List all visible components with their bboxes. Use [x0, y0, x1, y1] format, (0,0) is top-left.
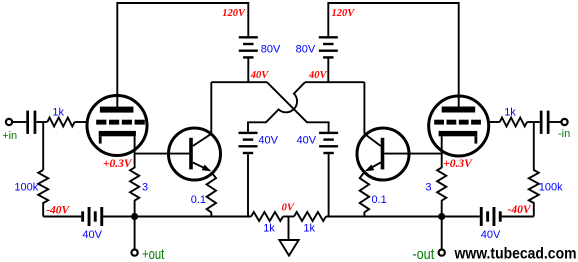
- svg-text:-in: -in: [558, 128, 570, 140]
- wire rail to Q2 collector: [363, 82, 365, 134]
- battery B5 40V bias left: [81, 207, 103, 226]
- svg-text:-40V: -40V: [508, 204, 532, 216]
- svg-text:1k: 1k: [303, 222, 315, 234]
- wire B3 to rail: [247, 154, 249, 216]
- svg-text:1k: 1k: [504, 106, 516, 118]
- wire B5 to node A: [103, 216, 134, 218]
- node A left output: [131, 213, 138, 220]
- svg-text:40V: 40V: [481, 229, 501, 241]
- terminal -in: [561, 119, 567, 125]
- wire rail to Q1 collector: [210, 82, 212, 134]
- wire R7 to node B: [326, 216, 442, 218]
- triode V1: [87, 96, 147, 156]
- wire V2 grid to R8: [489, 121, 500, 123]
- wire C2 to -in: [550, 121, 562, 123]
- wire C1 to R1 with grid-tap node: [36, 121, 47, 123]
- svg-text:100k: 100k: [14, 182, 38, 194]
- wire node A to +out: [134, 217, 136, 250]
- svg-text:-out: -out: [412, 246, 435, 262]
- resistor R3 3 (left): [130, 154, 139, 217]
- svg-text:3: 3: [142, 182, 148, 194]
- terminal +out: [132, 250, 138, 256]
- svg-text:40V: 40V: [82, 229, 102, 241]
- svg-text:+out: +out: [142, 246, 165, 262]
- resistor R7 1k: [294, 212, 326, 221]
- svg-text:40V: 40V: [308, 70, 328, 81]
- svg-text:100k: 100k: [539, 182, 563, 194]
- wire +in to C1: [12, 121, 26, 123]
- resistor R9 100k: [529, 122, 539, 217]
- wire R2 to B5: [43, 216, 81, 218]
- transistor Q2: [357, 128, 409, 180]
- wire V1 plate to top rail to B1: [117, 3, 248, 107]
- wire B4 to rail: [328, 154, 330, 216]
- svg-text:40V: 40V: [250, 70, 269, 81]
- svg-text:40V: 40V: [258, 135, 278, 147]
- resistor R1 1k: [47, 118, 74, 127]
- svg-text:1k: 1k: [52, 106, 64, 118]
- svg-text:1k: 1k: [263, 222, 275, 234]
- svg-text:80V: 80V: [296, 44, 316, 56]
- terminal -out: [439, 250, 445, 256]
- battery B3 40V float left: [239, 132, 258, 155]
- resistor R5 0.1 (left): [207, 172, 216, 217]
- transistor Q1: [169, 128, 221, 180]
- wire top rail right to B2: [328, 3, 458, 107]
- wire V1 cathode to Q1 base: [135, 136, 190, 153]
- wire 40V rail right: [305, 81, 364, 83]
- wire node B to B6: [442, 216, 480, 218]
- triode V2: [429, 96, 489, 156]
- wire R8 to C2 with tap: [527, 121, 540, 123]
- svg-text:0V: 0V: [282, 203, 295, 214]
- wire crossover NE-SW with hop to B3: [248, 82, 305, 132]
- resistor R6 1k: [251, 212, 283, 221]
- resistor R10 0.1 (right): [360, 172, 369, 217]
- wire node B to -out: [441, 217, 443, 250]
- battery B1 80V: [239, 36, 258, 59]
- svg-text:+in: +in: [2, 130, 17, 142]
- svg-text:www.tubecad.com: www.tubecad.com: [454, 246, 577, 262]
- battery B2 80V: [319, 36, 338, 59]
- wire grid tap down to R2: [42, 122, 44, 170]
- wire crossover NW-SE to B4: [267, 82, 329, 132]
- wire rail node A to R6: [135, 216, 252, 218]
- wire B2 to 40V node right: [327, 59, 329, 83]
- battery B4 40V float right: [319, 132, 338, 155]
- capacitor C1: [26, 111, 36, 134]
- resistor R8 1k: [500, 118, 527, 127]
- capacitor C2: [540, 111, 550, 134]
- resistor R4 3 (right): [437, 154, 446, 217]
- wire R6 to R7 center node: [283, 216, 294, 218]
- svg-text:80V: 80V: [261, 44, 281, 56]
- wire B1 to 40V node left: [247, 59, 249, 83]
- svg-text:+0.3V: +0.3V: [103, 158, 133, 170]
- wire B6 to R9 corner: [502, 216, 534, 218]
- svg-text:0.1: 0.1: [371, 194, 386, 206]
- battery B6 40V bias right: [480, 207, 502, 226]
- terminal +in: [6, 119, 12, 125]
- svg-text:120V: 120V: [332, 8, 356, 19]
- wire 40V rail left: [211, 81, 267, 83]
- svg-text:+0.3V: +0.3V: [443, 158, 473, 170]
- resistor R2 100k: [38, 170, 48, 217]
- svg-text:3: 3: [425, 182, 431, 194]
- svg-text:40V: 40V: [297, 135, 317, 147]
- wire R1 to V1 grid: [75, 121, 88, 123]
- svg-text:120V: 120V: [222, 8, 246, 19]
- svg-text:-40V: -40V: [46, 205, 70, 217]
- wire V2 cathode to Q2 base: [384, 136, 441, 153]
- ground: [279, 217, 298, 256]
- node B right output: [438, 213, 445, 220]
- svg-text:0.1: 0.1: [191, 194, 206, 206]
